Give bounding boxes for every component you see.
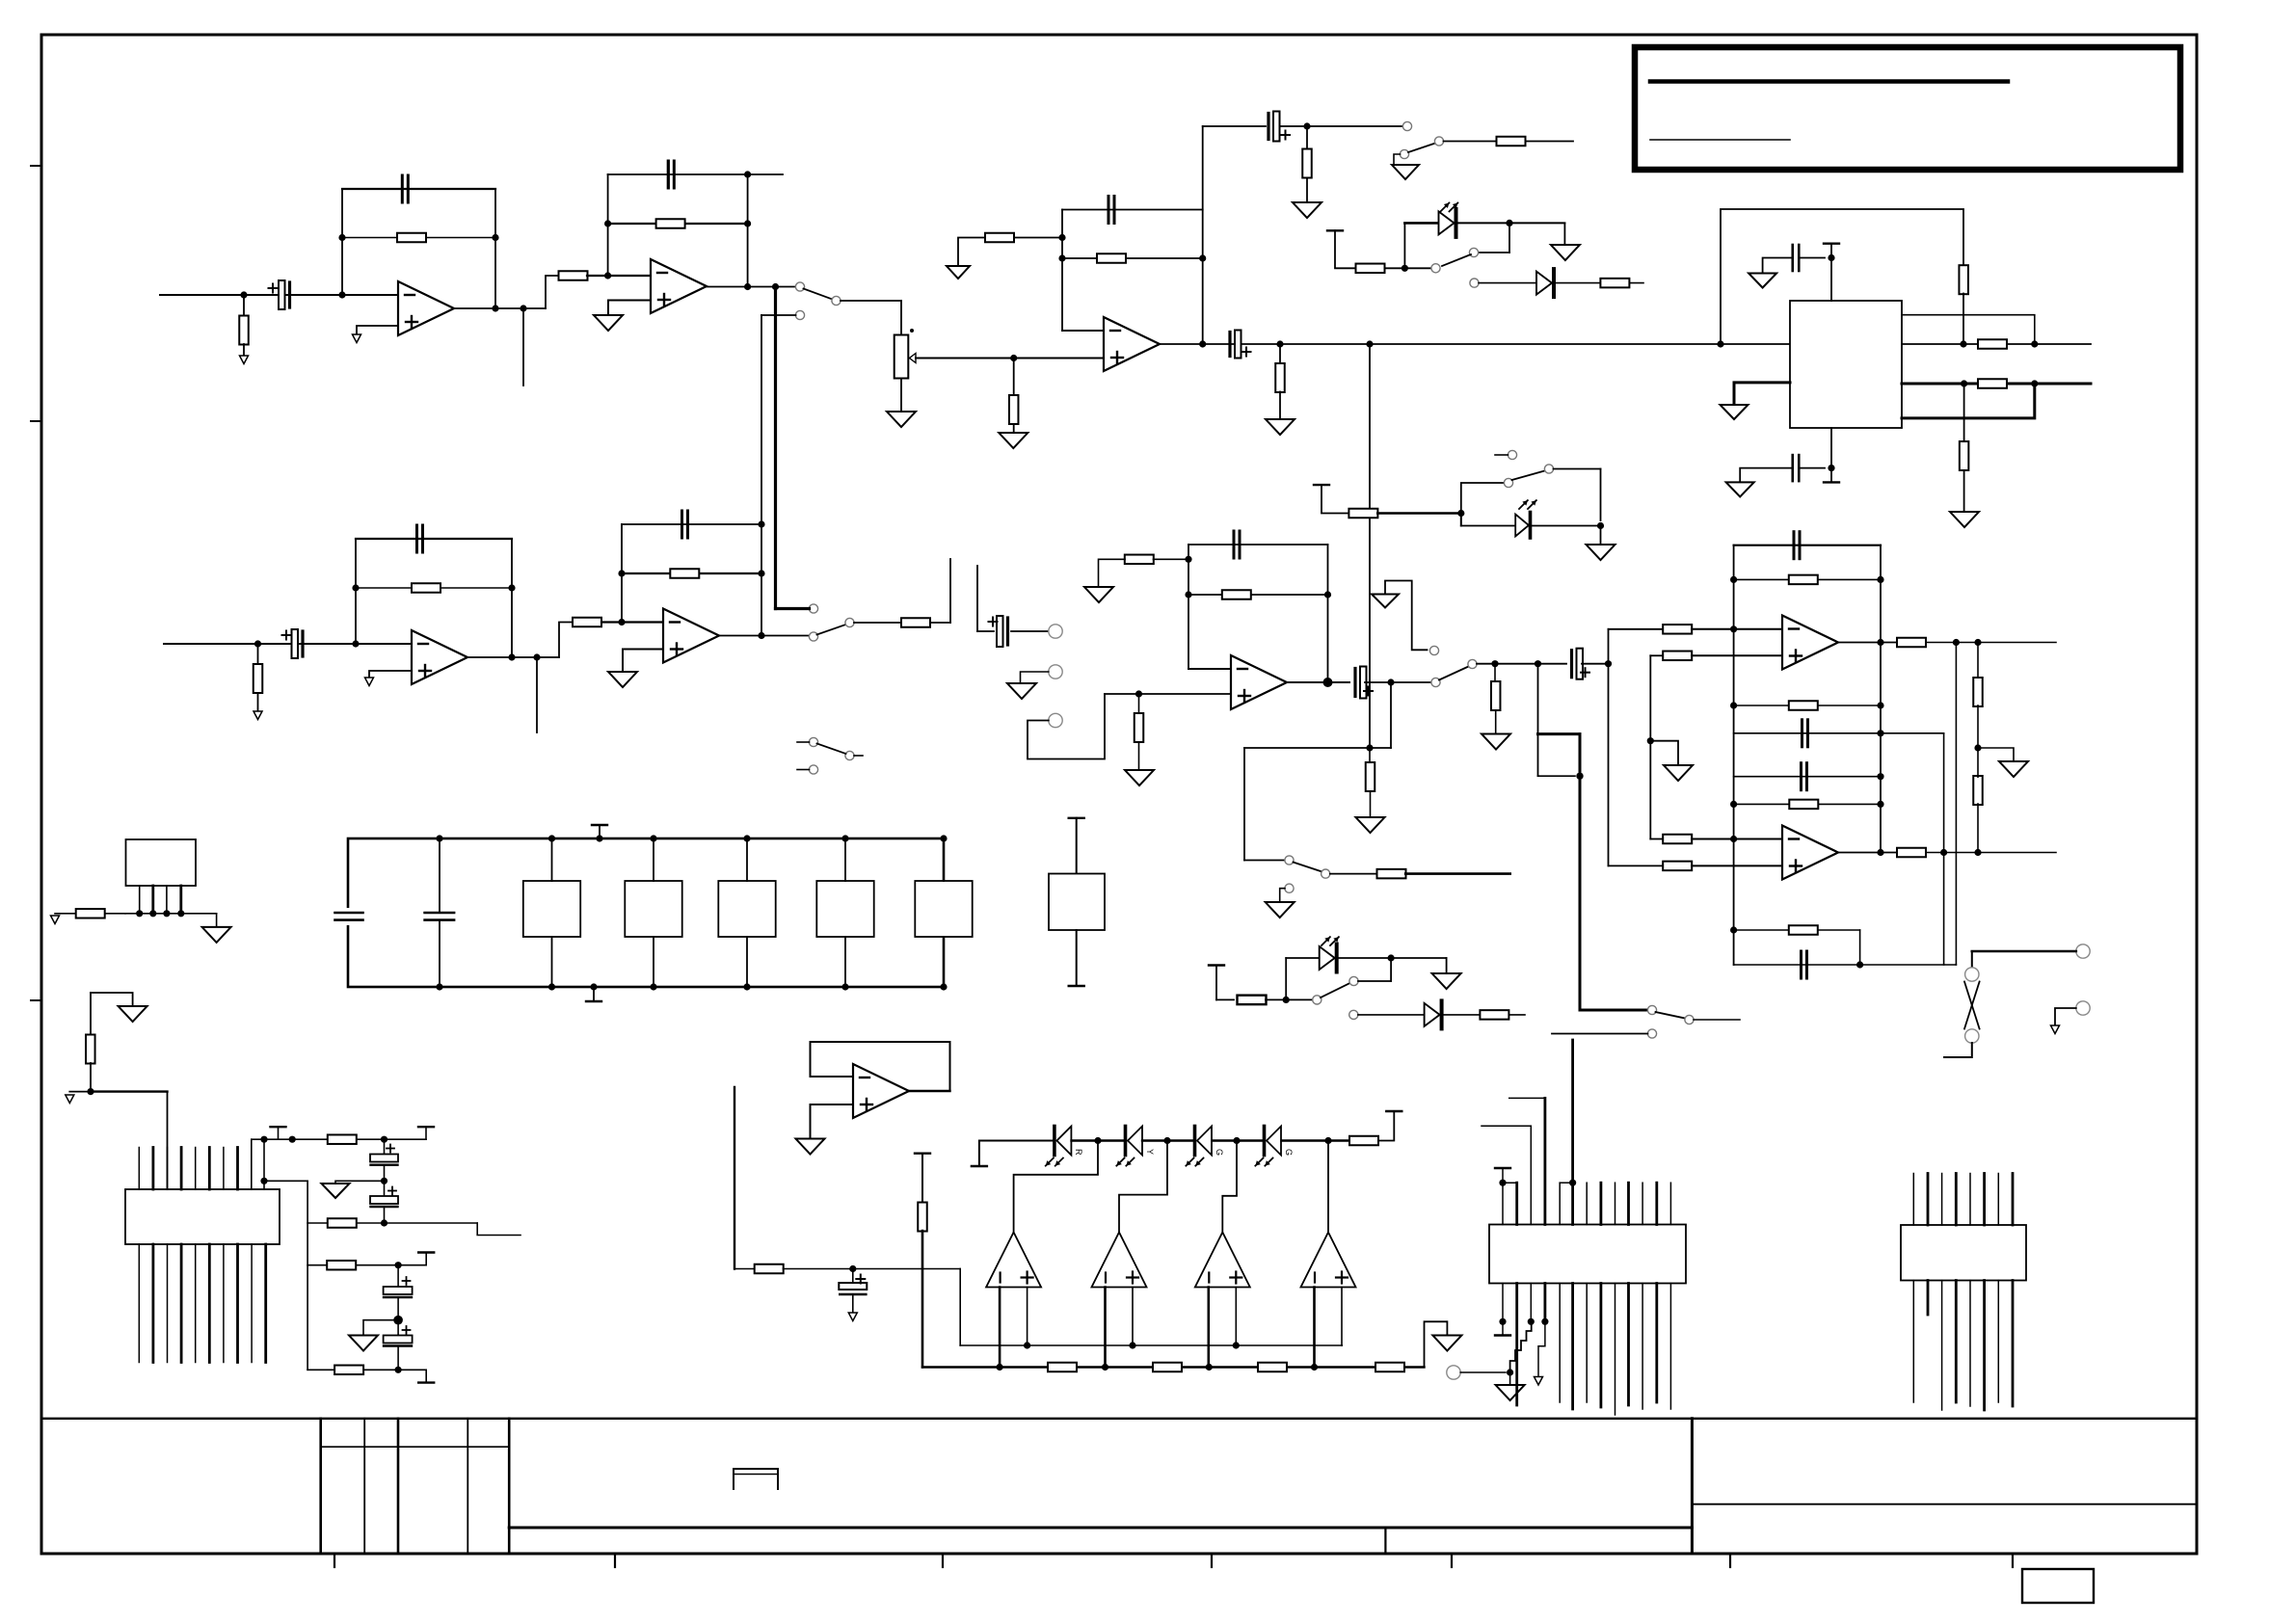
svg-text:G: G [1284,1149,1294,1156]
svg-text:R: R [1074,1149,1083,1156]
svg-text:Y: Y [1145,1149,1155,1155]
svg-text:G: G [1215,1149,1224,1156]
